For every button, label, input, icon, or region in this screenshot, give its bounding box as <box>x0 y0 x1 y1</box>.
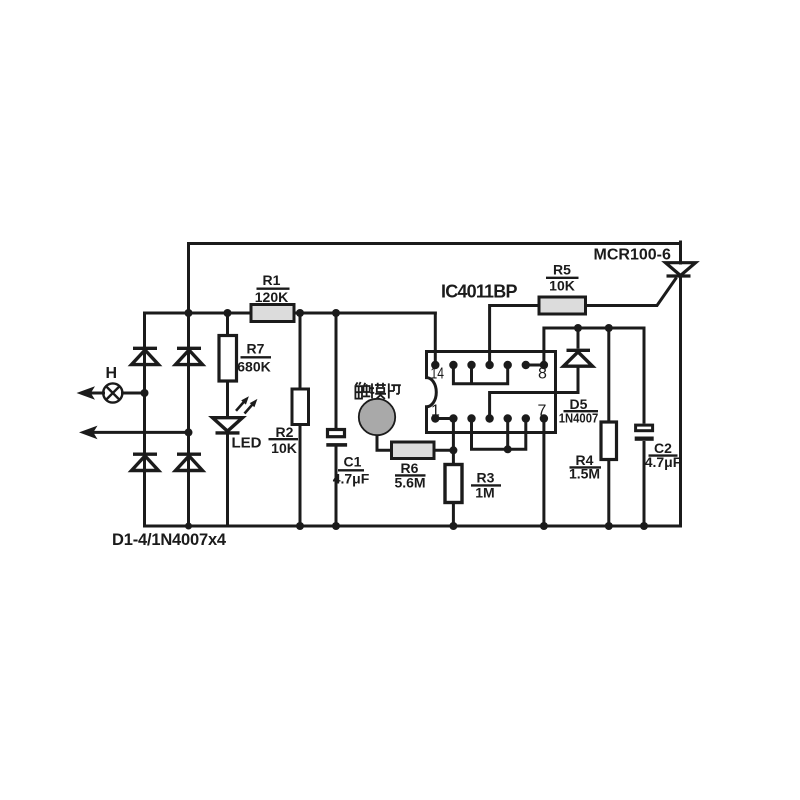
svg-text:H: H <box>106 365 118 382</box>
diode D2 <box>176 348 203 364</box>
node bus R4 <box>605 522 613 530</box>
LED D6 <box>213 418 243 433</box>
label C2 4.7uF <box>645 440 682 470</box>
label R6 5.6M <box>394 460 425 491</box>
arrow AC lead 2 <box>79 426 98 440</box>
wire pin4 to D5 anode <box>490 393 578 419</box>
wire lamp row <box>90 392 145 395</box>
resistor R2 <box>292 389 309 425</box>
lamp H <box>103 383 122 402</box>
svg-text:4.7μF: 4.7μF <box>333 471 370 487</box>
node R6 R3 junction <box>449 446 457 454</box>
svg-text:D1-4/1N4007x4: D1-4/1N4007x4 <box>112 531 227 549</box>
svg-text:R7: R7 <box>247 341 265 357</box>
svg-text:IC4011BP: IC4011BP <box>441 282 517 302</box>
resistor R6 <box>392 442 435 459</box>
node rail C1 <box>332 309 340 317</box>
node rail R7 <box>224 309 232 317</box>
wire bottom bus <box>145 525 681 528</box>
svg-text:4.7μF: 4.7μF <box>645 454 682 470</box>
diode D5 <box>564 328 593 393</box>
capacitor C2 <box>635 328 654 526</box>
label R4 1.5M <box>569 452 601 482</box>
IC U1 4011 body <box>427 352 556 433</box>
wire pins 3 5 6 connector <box>472 419 526 450</box>
diode D4 <box>176 454 203 470</box>
label R3 1M <box>471 470 501 501</box>
wire right rail lower <box>679 277 682 526</box>
wire left bridge vertical <box>143 313 146 526</box>
svg-text:1.5M: 1.5M <box>569 466 600 482</box>
IC pin dots top <box>431 361 548 369</box>
wire right rail upper <box>679 242 682 263</box>
svg-text:R3: R3 <box>477 470 495 486</box>
svg-text:120K: 120K <box>255 289 288 305</box>
diode D1 <box>132 348 159 364</box>
wire right bridge vertical <box>187 244 190 527</box>
node bus C2 <box>640 522 648 530</box>
thyristor Q1 MCR100-6 <box>666 263 696 276</box>
svg-text:10K: 10K <box>271 440 297 456</box>
label R1 120K <box>255 272 290 305</box>
node rail R2 <box>296 309 304 317</box>
resistor R3 <box>445 419 462 527</box>
svg-text:MCR100-6: MCR100-6 <box>594 247 671 264</box>
svg-text:C1: C1 <box>344 454 362 470</box>
node bus R2 <box>296 522 304 530</box>
svg-text:LED: LED <box>232 435 262 452</box>
IC pin dots bottom <box>431 414 548 422</box>
svg-text:5.6M: 5.6M <box>394 475 425 491</box>
wire pin14 to vdd rail <box>434 313 437 365</box>
svg-text:10K: 10K <box>549 278 575 294</box>
wire R7 LED branch <box>226 313 229 526</box>
wire touch plate to R6 <box>377 435 392 450</box>
svg-text:1N4007: 1N4007 <box>559 411 599 426</box>
wire vdd rail <box>145 312 436 315</box>
label D5 1N4007 <box>559 396 599 426</box>
touch plate 触摸片 <box>359 399 395 435</box>
wire pin11 up to R5 <box>490 306 539 366</box>
wire C1 branch <box>335 313 338 526</box>
wire pin7 to bus <box>542 419 545 527</box>
resistor R1 <box>251 305 294 322</box>
label R7 680K <box>237 341 271 375</box>
node bus pin7 <box>540 522 548 530</box>
wire pin8 up to D5 node <box>544 328 644 365</box>
wire ac input row <box>92 431 189 434</box>
wire top rail <box>189 242 681 245</box>
capacitor C1 <box>326 430 347 447</box>
diode D3 <box>132 454 159 470</box>
node lamp junction <box>141 389 149 397</box>
label 触摸片 <box>355 382 400 399</box>
wire pin1 pin2 tie <box>435 417 453 420</box>
resistor R7 <box>219 336 237 382</box>
wire R5 to gate <box>586 278 677 306</box>
resistor R5 <box>539 297 586 314</box>
node bus D4 <box>185 523 192 530</box>
wire R2 branch <box>299 313 302 526</box>
LED arrows <box>236 396 257 413</box>
wire pins 13 12 10 connector <box>453 365 507 384</box>
node R4 top <box>605 324 613 332</box>
svg-text:R2: R2 <box>276 424 294 440</box>
node D5 top <box>574 324 582 332</box>
label R5 10K <box>546 262 579 294</box>
resistor R4 <box>601 328 617 526</box>
label R2 10K <box>269 424 299 456</box>
node ac2 junction <box>185 428 193 436</box>
node pins 3 5 6 junction <box>504 445 512 453</box>
svg-text:680K: 680K <box>237 359 270 375</box>
svg-text:R1: R1 <box>263 272 281 288</box>
wire R6 to pin2 node <box>434 449 453 452</box>
node bus C1 <box>332 522 340 530</box>
arrow AC lead 1 <box>77 386 96 400</box>
svg-text:1M: 1M <box>475 485 494 501</box>
label C1 4.7uF <box>333 454 370 487</box>
wire pin9 pin8 tie <box>526 364 544 367</box>
node rail D2 <box>185 309 193 317</box>
svg-text:R5: R5 <box>553 262 571 278</box>
node bus R3 <box>449 522 457 530</box>
